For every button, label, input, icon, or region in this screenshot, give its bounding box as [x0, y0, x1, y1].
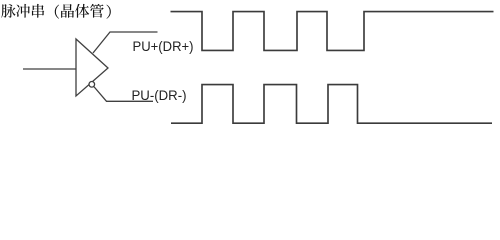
svg-text:PU-(DR-): PU-(DR-) — [132, 87, 187, 103]
svg-text:PU+(DR+): PU+(DR+) — [133, 38, 194, 54]
